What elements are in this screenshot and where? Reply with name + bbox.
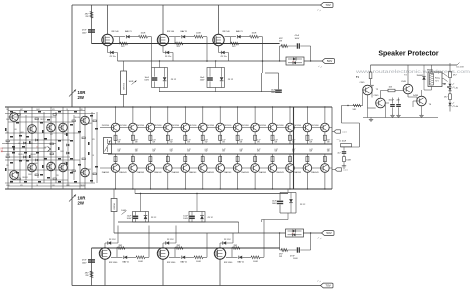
svg-text:2W: 2W xyxy=(85,275,88,277)
svg-text:5W: 5W xyxy=(309,151,312,153)
svg-text:output: output xyxy=(343,169,348,172)
svg-text:ZF 15v: ZF 15v xyxy=(110,56,116,58)
svg-text:2SC5200: 2SC5200 xyxy=(172,125,180,127)
svg-text:2SA1943: 2SA1943 xyxy=(172,171,179,174)
svg-text:2W: 2W xyxy=(279,40,282,42)
svg-text:5W: 5W xyxy=(187,142,190,144)
svg-text:output: output xyxy=(342,131,347,134)
svg-text:2N5551: 2N5551 xyxy=(40,119,46,121)
svg-text:IRF 9540: IRF 9540 xyxy=(109,262,118,264)
svg-text:4n7: 4n7 xyxy=(337,152,340,154)
svg-text:5W: 5W xyxy=(275,142,278,144)
svg-text:5W: 5W xyxy=(152,151,155,153)
svg-text:BAV 21: BAV 21 xyxy=(123,260,131,263)
svg-text:2K2: 2K2 xyxy=(34,132,37,134)
svg-text:ZF 12: ZF 12 xyxy=(228,79,234,81)
svg-text:5W: 5W xyxy=(222,142,225,144)
svg-text:BAV 21: BAV 21 xyxy=(236,30,244,33)
svg-text:100V: 100V xyxy=(183,218,188,220)
svg-text:ZF 12: ZF 12 xyxy=(208,217,214,219)
svg-text:IRF 540: IRF 540 xyxy=(223,31,231,33)
svg-text:100V: 100V xyxy=(271,92,276,94)
svg-text:ZF 12: ZF 12 xyxy=(300,204,306,206)
svg-text:2SC5200: 2SC5200 xyxy=(311,125,319,127)
svg-text:IRF 540: IRF 540 xyxy=(167,31,175,33)
svg-text:100R: 100R xyxy=(196,33,201,35)
svg-text:100R: 100R xyxy=(129,81,134,83)
svg-text:ZF 15V: ZF 15V xyxy=(109,239,116,241)
svg-text:100R: 100R xyxy=(196,261,201,263)
svg-text:5W: 5W xyxy=(327,151,330,153)
svg-text:D438: D438 xyxy=(413,95,419,97)
svg-text:ZF 15V: ZF 15V xyxy=(224,239,231,241)
svg-text:100V: 100V xyxy=(144,79,149,81)
svg-text:2SA1943: 2SA1943 xyxy=(276,171,283,174)
svg-text:2SA1943: 2SA1943 xyxy=(119,171,126,174)
svg-text:5W: 5W xyxy=(118,151,121,153)
svg-text:BAV 21: BAV 21 xyxy=(181,30,189,33)
svg-text:5W: 5W xyxy=(170,151,173,153)
svg-text:2K2: 2K2 xyxy=(6,109,9,111)
svg-text:2N5551: 2N5551 xyxy=(18,154,24,156)
svg-text:C945: C945 xyxy=(360,82,366,84)
svg-text:4K7: 4K7 xyxy=(20,109,23,111)
svg-text:10R5W: 10R5W xyxy=(114,203,116,210)
svg-text:2SC5200: 2SC5200 xyxy=(294,125,302,127)
svg-text:1N4002: 1N4002 xyxy=(417,75,424,77)
svg-text:4K7: 4K7 xyxy=(50,134,53,136)
svg-text:IN: IN xyxy=(1,148,4,151)
svg-text:2SA1943: 2SA1943 xyxy=(259,171,266,174)
svg-text:100R: 100R xyxy=(138,261,143,263)
svg-text:ZF 12: ZF 12 xyxy=(151,217,157,219)
svg-text:DC 15V: DC 15V xyxy=(457,67,465,69)
svg-text:5W: 5W xyxy=(170,142,173,144)
svg-text:5W: 5W xyxy=(327,142,330,144)
svg-text:2SA1943: 2SA1943 xyxy=(224,171,231,174)
svg-text:MR750: MR750 xyxy=(123,82,125,89)
svg-text:2SC5200: 2SC5200 xyxy=(119,125,127,127)
svg-text:100R: 100R xyxy=(141,33,146,35)
svg-text:5W: 5W xyxy=(118,142,121,144)
svg-text:2K2: 2K2 xyxy=(88,169,91,171)
svg-text:100V: 100V xyxy=(82,32,87,34)
svg-text:C945: C945 xyxy=(374,95,380,97)
svg-text:100R: 100R xyxy=(253,261,258,263)
svg-text:4K7: 4K7 xyxy=(44,147,47,149)
svg-text:2SA1943: 2SA1943 xyxy=(189,171,196,174)
svg-text:www.routarelectronic.wordpress: www.routarelectronic.wordpress.com xyxy=(356,69,471,74)
svg-text:BAV 21: BAV 21 xyxy=(125,30,133,33)
svg-text:1N4148: 1N4148 xyxy=(30,154,36,156)
svg-text:2SA1943: 2SA1943 xyxy=(154,171,161,174)
svg-text:100V: 100V xyxy=(272,203,277,205)
svg-text:2SC5200: 2SC5200 xyxy=(102,125,110,127)
svg-text:1N4148: 1N4148 xyxy=(22,177,28,179)
svg-text:100V: 100V xyxy=(200,79,205,81)
svg-text:2W: 2W xyxy=(279,256,282,258)
svg-text:100R: 100R xyxy=(346,160,351,162)
svg-text:2SA1943: 2SA1943 xyxy=(311,171,318,174)
svg-text:5W: 5W xyxy=(275,151,278,153)
svg-text:ZF 15V: ZF 15V xyxy=(167,239,174,241)
svg-text:ZF 12: ZF 12 xyxy=(171,79,177,81)
svg-text:2W: 2W xyxy=(78,95,85,100)
svg-text:5W: 5W xyxy=(152,142,155,144)
svg-text:5W: 5W xyxy=(135,151,138,153)
svg-text:47nF: 47nF xyxy=(82,260,87,262)
svg-text:2K2: 2K2 xyxy=(50,162,53,164)
svg-text:2SA1943: 2SA1943 xyxy=(294,171,301,174)
svg-text:RM602: RM602 xyxy=(427,70,433,72)
svg-text:2SC5200: 2SC5200 xyxy=(276,125,284,127)
svg-text:IRF 540: IRF 540 xyxy=(112,31,120,33)
svg-text:2N5551: 2N5551 xyxy=(80,185,86,187)
svg-text:2SC5200: 2SC5200 xyxy=(154,125,162,127)
svg-text:50V: 50V xyxy=(327,59,332,63)
svg-text:100R: 100R xyxy=(252,33,257,35)
svg-text:100V: 100V xyxy=(127,218,132,220)
svg-text:100uF: 100uF xyxy=(389,100,395,102)
svg-text:5W: 5W xyxy=(257,142,260,144)
svg-text:L4d: L4d xyxy=(455,106,458,108)
svg-text:IRF 9540: IRF 9540 xyxy=(167,262,176,264)
svg-text:5W: 5W xyxy=(222,151,225,153)
svg-text:100V: 100V xyxy=(82,262,87,264)
svg-text:50V: 50V xyxy=(326,231,331,235)
svg-text:5W: 5W xyxy=(205,142,208,144)
svg-text:70V: 70V xyxy=(325,284,330,288)
svg-text:100V: 100V xyxy=(295,38,300,40)
svg-text:5W: 5W xyxy=(135,142,138,144)
svg-text:2SA1943: 2SA1943 xyxy=(206,171,213,174)
svg-text:5W: 5W xyxy=(240,142,243,144)
svg-text:5W: 5W xyxy=(257,151,260,153)
svg-text:1N4148: 1N4148 xyxy=(74,117,80,119)
svg-text:C945: C945 xyxy=(401,81,407,83)
svg-text:2SC5200: 2SC5200 xyxy=(259,125,267,127)
svg-text:5W: 5W xyxy=(205,151,208,153)
svg-text:2SC5200: 2SC5200 xyxy=(137,125,145,127)
svg-text:ZF 15v: ZF 15v xyxy=(221,56,227,58)
svg-text:2SC5200: 2SC5200 xyxy=(206,125,214,127)
svg-text:2W: 2W xyxy=(78,201,85,206)
svg-text:BAV 21: BAV 21 xyxy=(181,260,189,263)
svg-text:5W: 5W xyxy=(240,151,243,153)
svg-text:2SC5200: 2SC5200 xyxy=(241,125,249,127)
svg-text:4K7: 4K7 xyxy=(64,162,67,164)
svg-text:+out: +out xyxy=(336,138,340,141)
svg-text:2SA1943: 2SA1943 xyxy=(137,171,144,174)
svg-text:4n8: 4n8 xyxy=(292,233,295,235)
svg-text:2SA1943: 2SA1943 xyxy=(241,171,248,174)
svg-text:ZF 15v: ZF 15v xyxy=(165,56,171,58)
svg-text:5W: 5W xyxy=(187,151,190,153)
svg-text:2SC5200: 2SC5200 xyxy=(224,125,232,127)
svg-text:IRF 9540: IRF 9540 xyxy=(224,262,233,264)
svg-text:BAV 21: BAV 21 xyxy=(238,260,246,263)
svg-text:2SC5200: 2SC5200 xyxy=(189,125,197,127)
svg-text:2W: 2W xyxy=(85,16,88,18)
svg-text:70V: 70V xyxy=(325,3,330,7)
svg-text:5W: 5W xyxy=(309,142,312,144)
svg-text:47nF: 47nF xyxy=(82,30,87,32)
svg-text:L1 10uH: L1 10uH xyxy=(339,141,347,143)
svg-text:4n8: 4n8 xyxy=(292,61,295,63)
svg-text:100V: 100V xyxy=(293,258,298,260)
svg-text:Speaker Protector: Speaker Protector xyxy=(378,51,439,58)
svg-text:2SA1943: 2SA1943 xyxy=(102,171,109,174)
